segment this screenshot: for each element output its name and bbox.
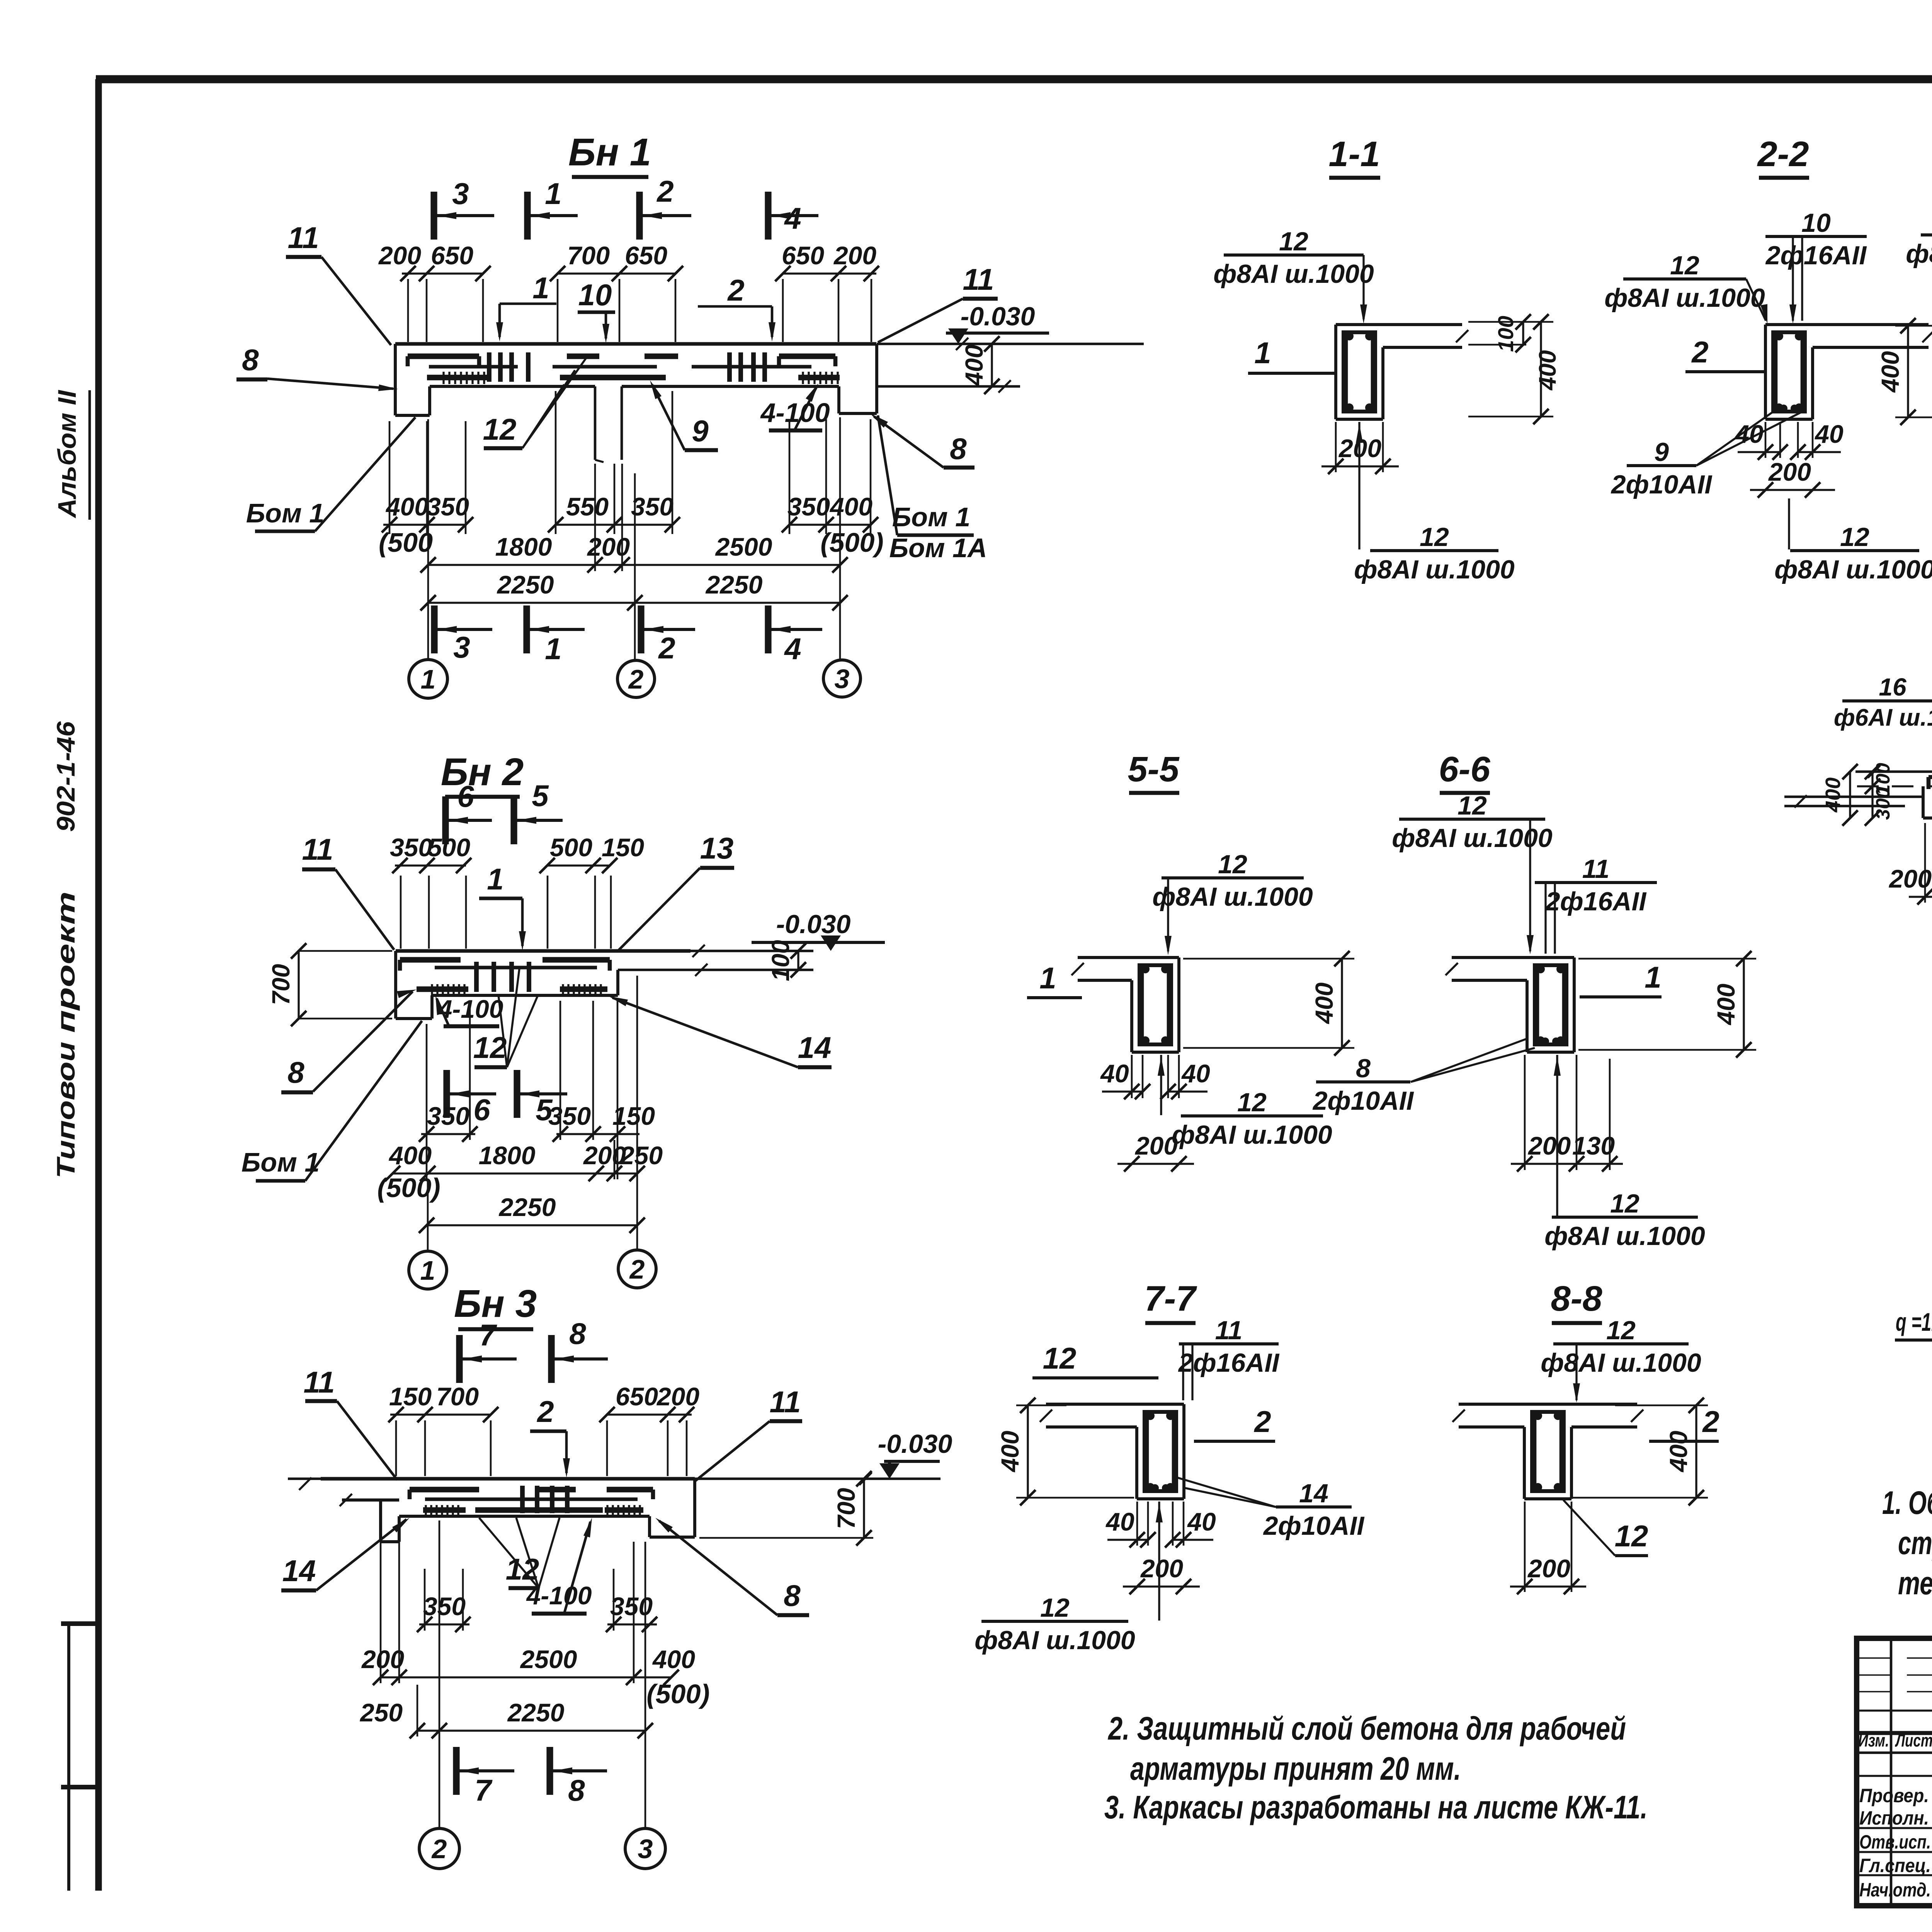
grid extension lines Бн1 — [428, 417, 840, 662]
svg-text:2250: 2250 — [507, 1698, 565, 1727]
svg-text:арматуры принят 20 мм.: арматуры принят 20 мм. — [1130, 1750, 1461, 1787]
svg-text:1: 1 — [420, 1255, 435, 1286]
svg-text:400: 400 — [1876, 351, 1904, 393]
svg-text:8: 8 — [242, 343, 259, 377]
svg-text:3. Каркасы разработаны на лист: 3. Каркасы разработаны на листе КЖ-11. — [1104, 1789, 1648, 1825]
callout 16 ф6АI ш.150 Бн4 — [1834, 673, 1932, 784]
svg-text:Отв.исп.: Отв.исп. — [1859, 1831, 1931, 1853]
section 7-7 callout 12 ф8АI ш.1000 bottom — [975, 1502, 1163, 1655]
svg-text:2: 2 — [536, 1395, 554, 1429]
svg-text:14: 14 — [1299, 1479, 1328, 1508]
svg-text:902-1-46: 902-1-46 — [51, 721, 80, 832]
label Бом1 left Бн1 — [246, 417, 415, 531]
mesh hash marks Бн2 left — [432, 984, 464, 995]
svg-text:Провер.: Провер. — [1859, 1785, 1929, 1806]
section 7-7 dims 40 40 — [1105, 1502, 1216, 1548]
svg-text:12: 12 — [1615, 1519, 1648, 1553]
svg-text:500: 500 — [550, 833, 592, 862]
svg-text:4-100: 4-100 — [526, 1581, 592, 1610]
svg-text:2: 2 — [727, 273, 744, 307]
svg-text:12: 12 — [1610, 1189, 1639, 1218]
mark 8 callout right Бн1 — [870, 413, 975, 468]
section 8-8 dim 200 — [1510, 1502, 1586, 1594]
svg-text:Бн 1: Бн 1 — [568, 131, 651, 174]
svg-text:q =1.73тс/пм: q =1.73тс/пм — [1896, 1308, 1932, 1336]
svg-text:250: 250 — [359, 1698, 403, 1727]
svg-text:Исполн.: Исполн. — [1859, 1807, 1929, 1829]
note 2 text — [1107, 1710, 1626, 1787]
svg-text:11: 11 — [1582, 854, 1610, 884]
section 1-1 title — [1329, 134, 1380, 178]
svg-text:10: 10 — [1801, 208, 1831, 238]
svg-text:9: 9 — [1654, 437, 1669, 467]
svg-text:ф6АI ш.150: ф6АI ш.150 — [1834, 704, 1932, 731]
svg-text:40: 40 — [1814, 420, 1844, 448]
svg-text:2: 2 — [1702, 1405, 1719, 1439]
svg-text:1: 1 — [532, 271, 549, 305]
extension lines Бн3 dims — [381, 1520, 634, 1736]
svg-text:3: 3 — [835, 664, 850, 694]
svg-text:400: 400 — [1534, 350, 1561, 391]
svg-text:1: 1 — [487, 862, 503, 896]
beam Бн2 concrete outline — [396, 951, 690, 1019]
svg-text:Бом 1: Бом 1 — [246, 498, 324, 528]
grid bubble 1 Бн1 — [409, 660, 447, 698]
binding fold marks left margin — [61, 1624, 101, 1891]
svg-text:12: 12 — [1237, 1088, 1267, 1117]
winter option dims (500) Бн1 — [379, 527, 884, 558]
mark 13 callout Бн2 — [617, 831, 734, 951]
svg-text:6: 6 — [457, 779, 474, 813]
section 1-1 cross-section — [1336, 325, 1468, 419]
title Бн3 — [454, 1282, 537, 1329]
svg-text:2ф10АII: 2ф10АII — [1611, 470, 1713, 499]
extension lines upper dims Бн1 — [408, 279, 871, 342]
lower dims Бн3: 200 2500 400 — [361, 1645, 695, 1685]
bottom reinforcement bars Бн3 — [423, 1507, 643, 1513]
svg-text:150: 150 — [389, 1382, 432, 1411]
svg-text:7-7: 7-7 — [1145, 1279, 1197, 1318]
svg-text:2250: 2250 — [705, 570, 763, 599]
section 5-5 title — [1128, 750, 1180, 793]
svg-text:40: 40 — [1734, 420, 1764, 448]
section 1-1 dim 200 — [1321, 422, 1399, 474]
svg-text:строительства в районах с расч: строительства в районах с расчетной зимн… — [1898, 1525, 1932, 1561]
svg-text:12: 12 — [1043, 1341, 1077, 1375]
lower dims Бн3 row: 350 / 350 — [417, 1592, 657, 1632]
grid bubble 3 Бн1 — [823, 660, 861, 697]
beam Бн4 slab tray outline — [1929, 777, 1932, 803]
svg-text:12: 12 — [1040, 1593, 1070, 1622]
section 2-2 callout 9 2ф10АII — [1611, 410, 1805, 499]
mark 8 callout Бн3 — [655, 1518, 809, 1615]
svg-text:8: 8 — [1356, 1054, 1371, 1083]
section 6-6 dims 200 130 — [1511, 1055, 1623, 1172]
section 5-5 callout 12 ф8АI ш.1000 — [1152, 850, 1313, 955]
extension lines upper dims Бн3 — [396, 1420, 687, 1476]
svg-text:400: 400 — [1310, 983, 1338, 1025]
svg-text:700: 700 — [267, 964, 295, 1005]
section marks 6 5 below Бн2 — [447, 1070, 567, 1127]
section 8-8 axis mark 2 — [1649, 1405, 1719, 1441]
upper dims Бн3: 150 700 / 650 200 — [388, 1382, 699, 1422]
svg-text:650: 650 — [625, 241, 667, 270]
beam Бн3 concrete outline — [321, 1479, 695, 1542]
section 2-2 axis mark 2 — [1685, 335, 1765, 372]
svg-text:100: 100 — [767, 940, 794, 981]
section 6-6 callout 12 ф8АI ш.1000 bottom — [1544, 1055, 1705, 1251]
mark 9 callout Бн1 — [650, 380, 718, 450]
section 1-1 vertical dim 400 — [1468, 314, 1561, 424]
svg-text:200: 200 — [1527, 1131, 1571, 1160]
svg-text:5-5: 5-5 — [1128, 750, 1180, 789]
svg-text:11: 11 — [304, 1365, 335, 1399]
svg-text:400: 400 — [960, 345, 988, 387]
svg-text:ф8АI ш.1000: ф8АI ш.1000 — [1906, 239, 1932, 269]
section 8-8 title — [1551, 1279, 1603, 1323]
section 8-8 callout 12 ф8АI ш.1000 — [1541, 1316, 1701, 1403]
section 7-7 axis mark 2 — [1194, 1405, 1275, 1441]
svg-text:350: 350 — [548, 1102, 591, 1130]
svg-text:250: 250 — [619, 1141, 663, 1170]
svg-text:40: 40 — [1105, 1507, 1134, 1536]
stirrup group Бн1 left — [489, 352, 528, 382]
lower dims Бн2: 400 1800 200 250 — [385, 1141, 663, 1181]
svg-text:12: 12 — [1279, 227, 1308, 256]
datum lines right of Бн2 — [618, 945, 813, 976]
svg-text:8: 8 — [568, 1773, 585, 1807]
svg-text:(500): (500) — [646, 1679, 709, 1709]
svg-text:Типовои: Типовои — [51, 1042, 80, 1179]
svg-text:200: 200 — [833, 241, 876, 270]
svg-text:12: 12 — [1670, 251, 1699, 280]
dims Бн4: 200 2200 200 — [1888, 864, 1932, 905]
svg-text:2: 2 — [1691, 335, 1708, 369]
grid bubble 2 Бн3 — [419, 1828, 459, 1869]
svg-text:4: 4 — [784, 201, 801, 235]
rebar mark 1 callout Бн2 — [479, 862, 526, 951]
section 2-2 dims 40 40 — [1734, 420, 1844, 460]
svg-text:2500: 2500 — [520, 1645, 577, 1673]
svg-text:40: 40 — [1187, 1507, 1216, 1536]
svg-text:Лист: Лист — [1895, 1730, 1932, 1750]
svg-text:11: 11 — [302, 832, 333, 866]
upper dims Бн2: 350 500 / 500 150 — [390, 833, 644, 873]
svg-text:Альбом II: Альбом II — [53, 389, 81, 519]
svg-text:200: 200 — [378, 241, 421, 270]
svg-text:проект: проект — [51, 891, 80, 1033]
svg-text:12: 12 — [473, 1031, 507, 1065]
svg-text:400: 400 — [652, 1645, 695, 1673]
section 5-5 dim 200 — [1117, 1131, 1194, 1172]
svg-text:ф8АI ш.1000: ф8АI ш.1000 — [1354, 555, 1515, 584]
svg-text:2: 2 — [656, 174, 673, 208]
middle reinforcement bars Бн1 — [429, 365, 811, 368]
svg-text:1: 1 — [545, 177, 561, 211]
svg-text:6-6: 6-6 — [1439, 750, 1491, 789]
section 6-6 callout 8 2ф10АII — [1312, 1039, 1535, 1116]
section 6-6 callout 11 2ф16АII — [1535, 854, 1657, 954]
upper dimension row Бн1: 200 650 / 700 650 / 650 200 — [378, 241, 879, 281]
svg-text:температурой наружного воздуха: температурой наружного воздуха t=-40°С. — [1898, 1565, 1932, 1601]
svg-text:12: 12 — [1606, 1316, 1636, 1345]
datum line through Бн4 — [1855, 765, 1932, 786]
svg-text:Бн 2: Бн 2 — [441, 750, 524, 794]
section marks 3 1 2 4 below Бн1 — [434, 605, 822, 666]
svg-text:1: 1 — [421, 664, 436, 694]
svg-text:13: 13 — [700, 831, 734, 865]
beam Бн4 supports — [1923, 786, 1932, 818]
section 2-2 callout 10 2ф16АII top — [1765, 208, 1867, 324]
svg-text:1: 1 — [545, 632, 561, 666]
rebar mark 10 callout Бн1 — [578, 278, 615, 343]
section 2-2 title — [1757, 134, 1809, 178]
section 7-7 vertical dim 400 — [996, 1398, 1134, 1505]
winter option (500) Бн3 — [646, 1679, 709, 1709]
svg-text:7: 7 — [474, 1773, 493, 1807]
title block left column lines — [1891, 1638, 1932, 1906]
section 1-1 axis mark 1 — [1248, 336, 1336, 373]
section 7-7 title — [1145, 1279, 1197, 1323]
svg-text:40: 40 — [1181, 1059, 1210, 1088]
svg-text:150: 150 — [602, 833, 644, 862]
svg-text:400: 400 — [385, 492, 429, 521]
svg-text:200: 200 — [583, 1141, 626, 1170]
svg-text:2ф16АII: 2ф16АII — [1765, 241, 1867, 270]
svg-text:1-1: 1-1 — [1329, 134, 1380, 174]
label Бом1 Бн2 — [241, 1021, 422, 1181]
svg-text:130: 130 — [1572, 1131, 1615, 1160]
section marks 3 1 2 4 above Бн1 — [434, 174, 818, 240]
svg-text:4-100: 4-100 — [760, 398, 830, 428]
svg-text:500: 500 — [428, 833, 470, 862]
elevation mark -0.030 Бн3 — [878, 1429, 952, 1479]
svg-text:700: 700 — [567, 241, 610, 270]
svg-text:200: 200 — [587, 532, 630, 561]
section 7-7 mark 12 — [1032, 1341, 1158, 1378]
vertical dims 400 100 300 left of Бн4 — [1821, 763, 1894, 826]
svg-text:12: 12 — [1218, 850, 1247, 879]
section 5-5 axis mark 1 — [1027, 961, 1082, 998]
lower dims Бн2 row: 350 / 350 150 — [419, 1102, 655, 1142]
dim 2250 Бн3 row: 250 2250 — [359, 1698, 653, 1738]
svg-text:7: 7 — [479, 1318, 497, 1352]
mark 11 callout Бн2 — [302, 832, 394, 950]
section 7-7 dim 200 — [1123, 1554, 1200, 1594]
mark 11 callout right Бн1 — [878, 262, 998, 342]
grid bubble 3 Бн3 — [625, 1828, 665, 1869]
svg-text:350: 350 — [610, 1592, 653, 1621]
mesh hash marks 4-100 Бн1 right — [803, 372, 838, 384]
section 5-5 cross-section — [1071, 957, 1179, 1052]
section 3-3 vertical dim 400 — [1876, 318, 1932, 425]
mark 4-100 callout Бн2 — [435, 995, 503, 1026]
mark 14 callout Бн3 — [281, 1518, 410, 1590]
section 6-6 cross-section — [1446, 957, 1574, 1052]
svg-text:400: 400 — [1665, 1431, 1692, 1473]
svg-text:2ф16АII: 2ф16АII — [1545, 887, 1647, 916]
section 5-5 callout 12 ф8АI ш.1000 mid — [1158, 1055, 1332, 1150]
section marks 7 8 above Бн3 — [459, 1316, 608, 1383]
middle reinforcement bar Бн3 — [425, 1497, 638, 1501]
section 2-2 callout 12 ф8АI ш.1000 — [1604, 251, 1767, 324]
svg-text:2-2: 2-2 — [1757, 134, 1809, 174]
mark 8 callout Бн2 — [281, 990, 417, 1092]
vertical dim 400 right of Бн1 — [960, 336, 1000, 394]
svg-text:200: 200 — [1134, 1131, 1178, 1160]
section 6-6 vertical dim 400 — [1578, 951, 1756, 1058]
svg-text:1: 1 — [1254, 336, 1271, 370]
svg-text:12: 12 — [1840, 522, 1869, 552]
svg-text:9: 9 — [692, 414, 709, 448]
note 3 text — [1104, 1789, 1648, 1825]
svg-text:14: 14 — [798, 1031, 832, 1065]
svg-text:2250: 2250 — [497, 570, 554, 599]
label Бом1/Бом1А right Бн1 — [878, 415, 987, 563]
svg-text:ф8АI ш.1000: ф8АI ш.1000 — [975, 1626, 1135, 1655]
svg-text:ф8АI ш.1000: ф8АI ш.1000 — [1152, 882, 1313, 912]
svg-text:ф8АI ш.1000: ф8АI ш.1000 — [1774, 555, 1932, 584]
section 7-7 cross-section — [1040, 1404, 1184, 1499]
svg-text:14: 14 — [282, 1554, 316, 1588]
svg-text:2ф10АII: 2ф10АII — [1263, 1511, 1365, 1541]
svg-text:650: 650 — [431, 241, 473, 270]
svg-text:(500): (500) — [820, 527, 883, 558]
svg-text:Бом 1А: Бом 1А — [889, 533, 987, 563]
bottom reinforcement bars Бн1 — [427, 375, 840, 381]
adjacent slab lines left of Бн4 — [1784, 795, 1923, 808]
section 2-2 cross-section — [1765, 325, 1932, 419]
mark 4-100 callout Бн3 — [526, 1518, 592, 1614]
svg-text:350: 350 — [427, 1102, 469, 1130]
mark 8 callout left Бн1 — [236, 343, 398, 391]
extension lines upper dims Бн2 — [401, 876, 611, 949]
middle reinforcement bar Бн2 — [435, 966, 597, 969]
svg-text:8: 8 — [287, 1055, 304, 1089]
grid bubble 2 Бн1 — [617, 660, 655, 697]
top reinforcement bars Бн3 — [410, 1490, 653, 1499]
title block signature rows — [1859, 1785, 1932, 1901]
stirrup group Бн3 — [522, 1486, 567, 1513]
section 8-8 cross-section — [1452, 1404, 1643, 1499]
section 6-6 callout 12 ф8АI ш.1000 — [1392, 791, 1553, 954]
svg-text:40: 40 — [1100, 1059, 1129, 1088]
section 6-6 axis mark 1 — [1580, 960, 1662, 997]
svg-text:2ф10АII: 2ф10АII — [1312, 1086, 1415, 1116]
mark 11 callout right Бн3 — [696, 1385, 802, 1481]
rebar mark 1 callout Бн1 — [496, 271, 556, 342]
svg-text:200: 200 — [1140, 1554, 1183, 1583]
svg-text:Гл.спец.: Гл.спец. — [1859, 1855, 1931, 1876]
svg-text:400: 400 — [1712, 984, 1740, 1026]
svg-text:650: 650 — [616, 1382, 658, 1411]
title block header labels — [1858, 1730, 1932, 1750]
svg-text:(500: (500 — [379, 527, 433, 558]
section 6-6 title — [1439, 750, 1491, 793]
svg-text:200: 200 — [1768, 457, 1811, 486]
svg-text:350: 350 — [390, 833, 432, 862]
svg-text:5: 5 — [532, 779, 549, 813]
svg-text:400: 400 — [996, 1431, 1024, 1473]
svg-text:Изм.: Изм. — [1858, 1730, 1889, 1750]
section 2-2 callout 12 ф8АI ш.1000 bottom — [1774, 498, 1932, 584]
svg-text:2: 2 — [629, 1254, 645, 1284]
lower dimension row C Бн1: 2250 2250 — [420, 570, 848, 611]
svg-text:12: 12 — [1458, 791, 1487, 820]
svg-text:16: 16 — [1879, 673, 1906, 701]
vertical dim 700 left Бн2 — [267, 943, 392, 1026]
winter option (500) Бн2 — [377, 1173, 440, 1203]
svg-text:12: 12 — [1420, 522, 1449, 552]
svg-text:12: 12 — [483, 412, 517, 446]
svg-text:(500): (500) — [377, 1173, 440, 1203]
elevation mark -0.030 Бн1 — [946, 302, 1049, 344]
mark 12 callout Бн2 — [473, 966, 538, 1067]
svg-text:350: 350 — [427, 492, 469, 521]
title block left row lines — [1857, 1658, 1932, 1875]
mesh hash marks Бн2 right — [563, 984, 601, 995]
section 1-1 callout 12 ф8АI ш.1000 bottom — [1354, 422, 1515, 584]
scheme Бн2 load label q=1.73тс/пм — [1895, 1308, 1932, 1363]
margin stamp Типовой проект 902-1-46 — [51, 721, 80, 1179]
svg-text:150: 150 — [612, 1102, 655, 1130]
stirrup group Бн2 — [476, 962, 529, 992]
section 1-1 callout 12 ф8АI ш.1000 top — [1213, 227, 1374, 324]
section 5-5 dims 40 40 — [1100, 1055, 1210, 1099]
lower dimension row A Бн1: 400 350 / 550 350 / 350 400 — [382, 492, 878, 532]
section 8-8 mark 12 — [1563, 1500, 1648, 1556]
section 7-7 callout 11 2ф16АII — [1178, 1316, 1280, 1400]
svg-text:8: 8 — [784, 1578, 801, 1612]
bottom reinforcement bars Бн2 — [417, 986, 607, 992]
grid bubble 2 Бн2 — [618, 1250, 656, 1288]
svg-text:350: 350 — [787, 492, 830, 521]
grid extension lines Бн3 — [439, 1520, 645, 1828]
svg-text:3: 3 — [453, 630, 470, 664]
svg-text:11: 11 — [770, 1385, 801, 1419]
svg-text:200: 200 — [656, 1382, 699, 1411]
svg-text:ф8АI ш.1000: ф8АI ш.1000 — [1604, 283, 1765, 313]
svg-text:11: 11 — [963, 262, 994, 296]
dim 2250 Бн2 — [419, 1193, 645, 1233]
mesh hash marks 4-100 Бн1 left — [444, 372, 484, 384]
svg-text:ф8АI ш.1000: ф8АI ш.1000 — [1541, 1348, 1701, 1378]
svg-text:8: 8 — [569, 1316, 586, 1350]
svg-text:Бом 1: Бом 1 — [892, 502, 970, 532]
mark 4-100 callout Бн1 — [760, 383, 830, 430]
section 5-5 vertical dim 400 — [1183, 951, 1354, 1056]
svg-text:700: 700 — [832, 1488, 860, 1529]
svg-text:Нач.отд.: Нач.отд. — [1859, 1879, 1931, 1901]
mark 11 callout left Бн3 — [304, 1365, 397, 1480]
svg-text:Бом 1: Бом 1 — [241, 1147, 320, 1177]
svg-text:400: 400 — [829, 492, 872, 521]
beam Бн1 concrete outline — [395, 344, 877, 462]
svg-text:2500: 2500 — [715, 532, 772, 561]
section 1-1 vertical dim 100 — [1468, 314, 1531, 352]
section 2-2 dim 200 — [1750, 457, 1835, 498]
section marks 6 5 above Бн2 — [446, 779, 563, 844]
grid extension lines Бн2 — [428, 976, 637, 1251]
vertical dim 100 right Бн2 — [767, 940, 806, 981]
svg-text:2: 2 — [628, 664, 644, 694]
svg-text:ф8АI ш.1000: ф8АI ш.1000 — [1213, 259, 1374, 289]
datum lines Бн3 — [288, 1473, 940, 1490]
mark 14 callout Бн2 — [609, 996, 832, 1067]
svg-text:200: 200 — [1527, 1554, 1570, 1583]
svg-text:11: 11 — [1215, 1316, 1243, 1345]
margin stamp Альбом II — [53, 389, 90, 520]
